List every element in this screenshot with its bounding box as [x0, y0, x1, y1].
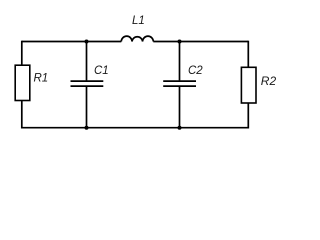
wire: left vertical lower [21, 101, 23, 129]
junction node: top of C1 [85, 40, 89, 44]
capacitor C1 branch upper wire [86, 42, 88, 81]
capacitor C2 branch lower wire [179, 87, 181, 128]
wire: top rail right segment [153, 41, 248, 43]
svg-text:R2: R2 [261, 74, 277, 88]
inductor L1 [121, 36, 153, 41]
resistor R1 [15, 65, 30, 100]
svg-text:L1: L1 [132, 15, 145, 27]
capacitor C1 plates [71, 81, 104, 86]
capacitor C2 plates [163, 81, 196, 86]
wire: bottom rail [22, 127, 249, 129]
resistor R2 [241, 67, 256, 103]
capacitor C1 branch lower wire [86, 87, 88, 128]
junction node: top of C2 [178, 40, 182, 44]
svg-text:C2: C2 [188, 65, 203, 77]
junction node: bottom of C1 [85, 126, 89, 130]
svg-text:R1: R1 [34, 72, 49, 84]
wire: top rail left segment [22, 41, 122, 43]
svg-text:C1: C1 [94, 65, 109, 77]
wire: right vertical lower [247, 103, 249, 129]
wire: left vertical upper [21, 41, 23, 65]
wire: right vertical upper [247, 41, 249, 68]
junction node: bottom of C2 [178, 126, 182, 130]
capacitor C2 branch upper wire [179, 42, 181, 81]
